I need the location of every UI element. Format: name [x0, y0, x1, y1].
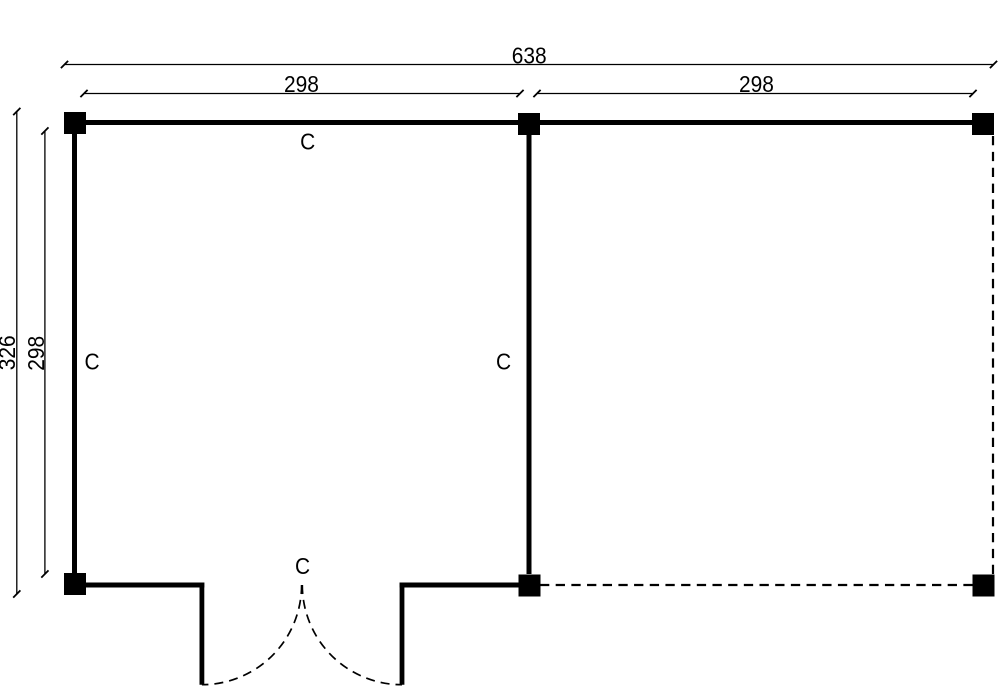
- svg-text:C: C: [300, 128, 315, 154]
- tick left end of 638: [61, 61, 68, 68]
- post top-left: [64, 112, 86, 134]
- svg-text:638: 638: [512, 42, 547, 68]
- tick top end of 326: [13, 108, 20, 115]
- tick right end of 298 right: [969, 90, 976, 97]
- post bottom-left: [64, 573, 86, 595]
- tick right end of 298 left: [516, 90, 523, 97]
- tick left end of 298 right: [533, 90, 540, 97]
- dimension line 638: [65, 64, 994, 66]
- wire bottom wall left of door: [86, 583, 204, 588]
- wire top wall right segment: [540, 120, 972, 125]
- post bottom-middle: [519, 575, 541, 597]
- svg-text:298: 298: [739, 71, 774, 97]
- wire middle wall: [527, 134, 532, 574]
- svg-text:C: C: [496, 349, 511, 375]
- wire dashed bottom wall of open bay: [540, 584, 973, 586]
- svg-text:C: C: [295, 553, 310, 579]
- tick right end of 638: [990, 61, 997, 68]
- dimension line 326 vertical: [16, 112, 18, 595]
- wire dashed right wall of open bay: [992, 136, 994, 574]
- wire left wall: [72, 134, 77, 573]
- tick bottom end of 326: [13, 590, 20, 597]
- dimension line 298 right: [537, 93, 973, 95]
- post top-right: [972, 113, 994, 135]
- door swing arc left: [202, 585, 302, 685]
- dimension line 298 vertical: [44, 131, 46, 574]
- post bottom-right: [973, 575, 995, 597]
- tick top end of 298 vertical: [41, 127, 48, 134]
- svg-text:C: C: [84, 349, 99, 375]
- svg-text:326: 326: [0, 335, 20, 370]
- wire bottom wall right of door: [400, 583, 519, 588]
- post top-middle: [518, 113, 540, 135]
- wire right door leaf: [400, 583, 405, 685]
- tick left end of 298 left: [80, 90, 87, 97]
- door swing arc right: [302, 585, 402, 685]
- wire top wall left segment: [86, 120, 518, 125]
- dimension line 298 left: [84, 93, 520, 95]
- tick bottom end of 298 vertical: [41, 570, 48, 577]
- svg-text:298: 298: [23, 336, 49, 371]
- svg-text:298: 298: [284, 71, 319, 97]
- wire left door leaf: [199, 583, 204, 685]
